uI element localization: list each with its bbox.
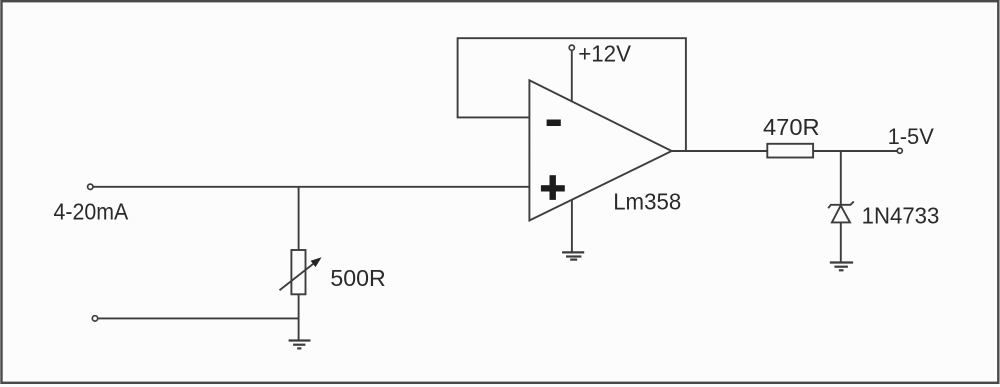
label 500R: [330, 265, 385, 291]
zener diode D1 cathode bar: [828, 202, 854, 209]
label 1N4733: [862, 203, 940, 229]
wire: op-amp V- pin to ground: [571, 200, 573, 253]
wire: D1 anode to ground: [840, 222, 842, 262]
+12V supply terminal: [569, 45, 574, 50]
svg-text:1N4733: 1N4733: [862, 203, 940, 229]
op-amp U1 triangle: [529, 80, 671, 220]
wire: R1 to output terminal: [813, 150, 897, 152]
potentiometer VR1 arrow: [280, 257, 322, 290]
svg-text:4-20mA: 4-20mA: [54, 198, 129, 224]
ground G3 (below D1): [830, 263, 853, 271]
wire: node A drop from top wire to VR1: [298, 187, 300, 250]
wire: feedback loop (output to inverting input): [458, 38, 686, 151]
svg-text:+12V: +12V: [578, 41, 631, 67]
svg-text:500R: 500R: [330, 265, 385, 291]
svg-text:Lm358: Lm358: [613, 188, 681, 214]
zener diode D1 anode triangle: [832, 205, 850, 222]
wire: bottom return from J2 to node A: [98, 317, 299, 319]
op-amp U1 minus input symbol: [547, 120, 561, 127]
label 1-5V: [888, 124, 935, 149]
wire: non-inverting input from J1 to op-amp: [93, 186, 529, 188]
label 4-20mA: [54, 198, 129, 224]
wire: VR1 bottom to ground: [298, 294, 300, 340]
input terminal J1 (top, 4-20mA +): [88, 184, 93, 189]
input terminal J2 (bottom, 4-20mA -): [92, 316, 97, 321]
ground G2 (below op-amp): [562, 252, 584, 259]
svg-text:1-5V: 1-5V: [888, 124, 935, 149]
output terminal J3: [897, 148, 902, 153]
resistor R1 470R body: [767, 144, 813, 158]
label +12V: [578, 41, 631, 67]
label 470R: [763, 114, 820, 140]
wire: +12V to op-amp V+ pin: [571, 50, 573, 101]
potentiometer VR1 body: [291, 250, 305, 294]
label Lm358: [613, 188, 681, 214]
wire: op-amp output to R1: [672, 150, 768, 152]
op-amp U1 plus input symbol: [541, 175, 565, 200]
ground G1 (below VR1): [289, 341, 311, 349]
svg-text:470R: 470R: [763, 114, 820, 140]
wire: node B drop to zener D1: [840, 151, 842, 205]
